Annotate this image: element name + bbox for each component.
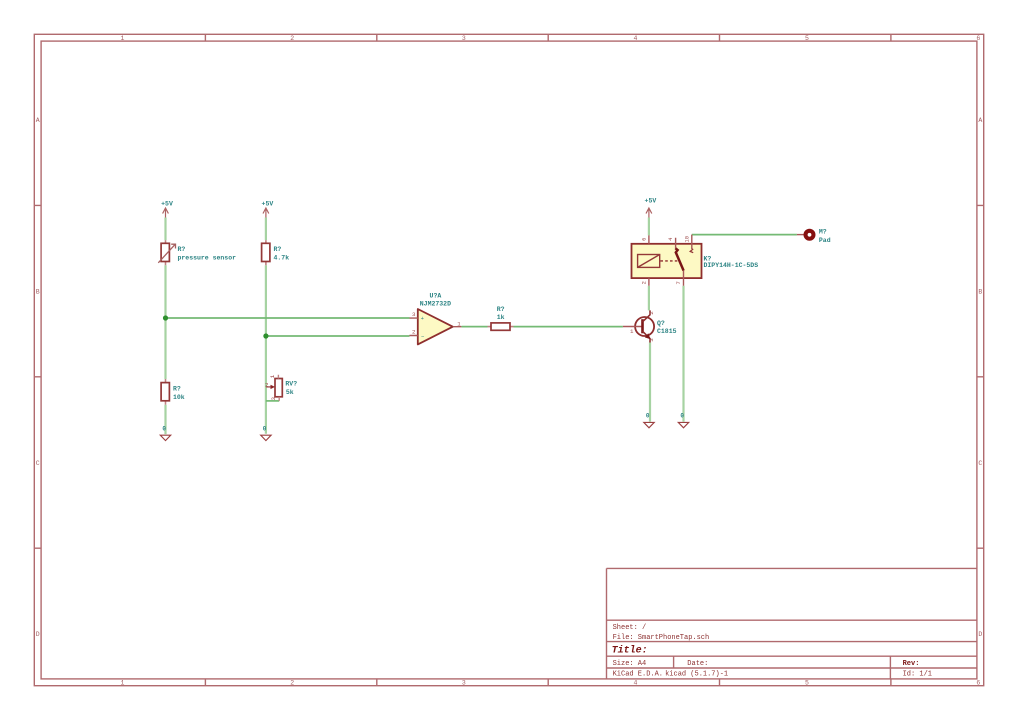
svg-text:1: 1 [457,320,461,327]
svg-text:7: 7 [676,281,682,284]
svg-text:D: D [36,631,40,638]
svg-text:C: C [36,460,40,467]
svg-text:R?: R? [173,385,181,392]
svg-text:3: 3 [462,680,466,687]
svg-text:R?: R? [274,246,282,253]
svg-text:4: 4 [633,35,637,42]
svg-text:4.7k: 4.7k [274,255,290,262]
svg-text:+5V: +5V [645,197,657,204]
svg-text:File: SmartPhoneTap.sch: File: SmartPhoneTap.sch [613,634,710,642]
svg-text:2: 2 [412,329,416,336]
svg-text:C: C [978,460,982,467]
svg-text:5k: 5k [286,389,294,396]
svg-text:0: 0 [680,413,684,420]
svg-text:+5V: +5V [262,200,274,207]
svg-text:2: 2 [290,35,294,42]
svg-text:3: 3 [462,35,466,42]
svg-text:RV?: RV? [285,381,297,388]
svg-text:2: 2 [648,311,655,315]
svg-text:5: 5 [805,680,809,687]
svg-text:4: 4 [668,238,674,241]
svg-text:R?: R? [178,246,186,253]
svg-text:pressure sensor: pressure sensor [178,255,237,262]
svg-text:0: 0 [162,426,166,433]
svg-text:Rev:: Rev: [903,660,920,668]
svg-text:3: 3 [648,338,655,342]
svg-text:10: 10 [684,236,690,242]
svg-text:6: 6 [976,35,980,42]
svg-text:2: 2 [265,381,269,388]
svg-text:kicad (5.1.7)-1: kicad (5.1.7)-1 [665,671,728,679]
svg-text:B: B [978,288,982,295]
svg-text:1: 1 [630,328,634,335]
svg-text:A: A [36,117,40,124]
svg-text:1: 1 [269,374,276,378]
svg-text:3: 3 [270,397,277,401]
svg-text:B: B [36,288,40,295]
svg-text:1: 1 [120,35,124,42]
svg-text:Sheet: /: Sheet: / [613,624,647,632]
svg-text:0: 0 [263,426,267,433]
svg-text:1k: 1k [497,314,505,321]
svg-text:Id: 1/1: Id: 1/1 [903,671,932,679]
svg-text:1: 1 [120,680,124,687]
svg-text:4: 4 [633,680,637,687]
svg-text:6: 6 [641,238,647,241]
svg-text:5: 5 [805,35,809,42]
svg-text:+5V: +5V [161,200,173,207]
svg-text:KiCad E.D.A.: KiCad E.D.A. [613,671,663,679]
svg-text:Date:: Date: [687,660,708,668]
svg-text:Title:: Title: [612,645,648,657]
svg-text:A: A [978,117,982,124]
svg-text:3: 3 [412,311,416,318]
svg-text:Size: A4: Size: A4 [613,660,647,668]
svg-text:2: 2 [290,680,294,687]
svg-text:2: 2 [641,281,647,284]
svg-text:NJM2732D: NJM2732D [420,300,451,307]
svg-text:U?A: U?A [430,292,442,299]
svg-text:Q?: Q? [657,320,665,327]
svg-text:DIPY14H-1C-5DS: DIPY14H-1C-5DS [704,262,759,269]
svg-text:0: 0 [646,413,650,420]
svg-text:10k: 10k [173,394,185,401]
svg-text:C1815: C1815 [657,328,677,335]
svg-text:6: 6 [976,680,980,687]
svg-text:M?: M? [819,229,827,236]
svg-text:Pad: Pad [819,237,831,244]
svg-text:R?: R? [497,306,505,313]
svg-text:D: D [978,631,982,638]
